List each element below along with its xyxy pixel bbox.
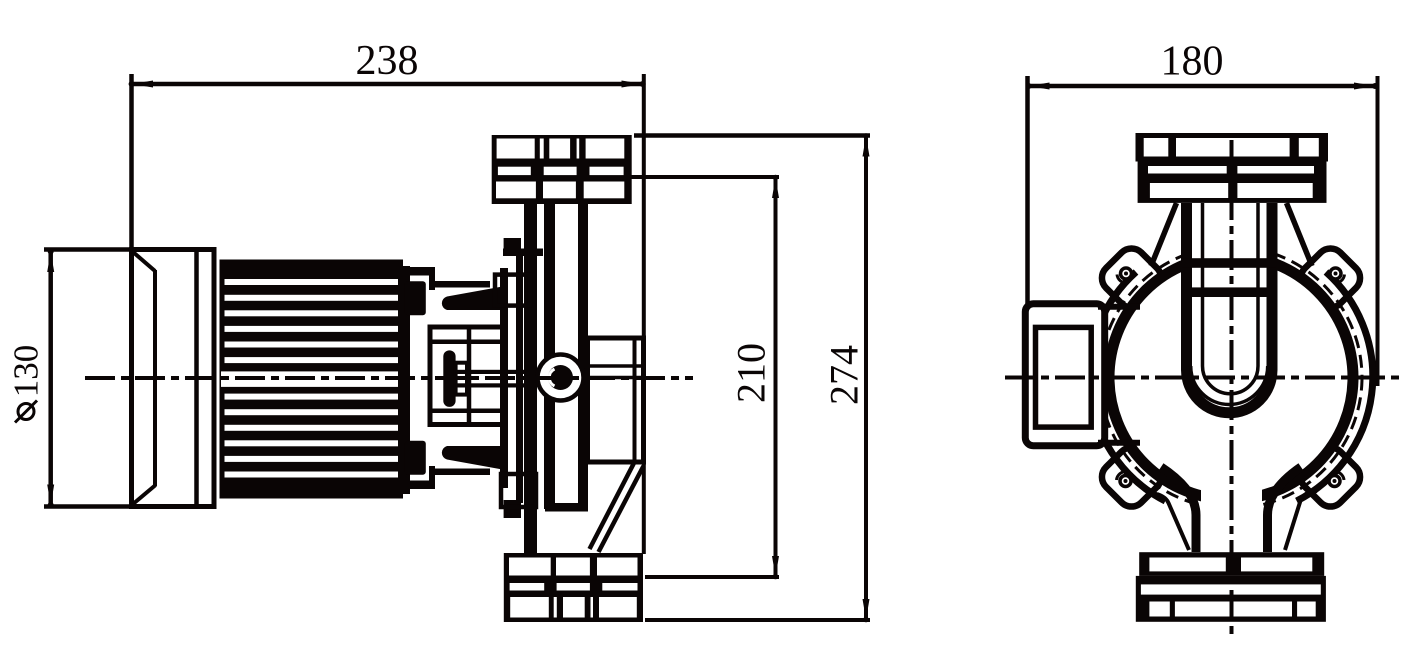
dimension 210 <box>630 175 779 580</box>
discharge bracket <box>588 338 644 552</box>
motor body with cooling fins <box>220 260 404 499</box>
top flange right view <box>1136 133 1329 203</box>
seal boss <box>538 355 642 401</box>
bell interior mask <box>1201 420 1262 548</box>
dimension 274 <box>634 133 870 622</box>
ear bolt holes <box>1117 268 1345 487</box>
bottom flange left view <box>504 553 643 622</box>
motor front bracket plate <box>398 266 410 494</box>
shaft block <box>456 363 530 395</box>
dimension 238 line <box>129 74 646 554</box>
svg-text:274: 274 <box>822 345 867 405</box>
svg-text:180: 180 <box>1161 39 1224 85</box>
dimension dia130 line <box>44 249 214 509</box>
lantern frame <box>430 327 505 425</box>
discharge pipe inner lines <box>1203 203 1259 394</box>
bottom bell of volute <box>1157 467 1317 552</box>
volute circle <box>1109 256 1353 500</box>
bottom flange right view <box>1136 552 1326 622</box>
centerline right view horizontal <box>1005 376 1404 380</box>
suction box left <box>1005 304 1140 446</box>
top lug and clamp bolt <box>404 267 508 315</box>
volute circle interior mask <box>1109 256 1353 500</box>
bolt ears <box>1096 243 1366 513</box>
pipe middle arc <box>1191 366 1268 405</box>
casing fittings bottom <box>504 500 521 518</box>
svg-text:210: 210 <box>729 343 774 403</box>
top flange left view <box>492 135 632 204</box>
svg-text:130: 130 <box>7 345 46 398</box>
flange corner diagonals <box>1151 203 1312 266</box>
casing backplate lines <box>504 204 588 554</box>
discharge pipe outer U <box>1187 203 1273 413</box>
casing fittings top <box>504 238 521 256</box>
bottom lug and clamp bolt <box>404 441 508 489</box>
ear band arcs <box>1089 272 1373 501</box>
svg-text:238: 238 <box>356 38 419 84</box>
motor rear cap <box>132 250 215 507</box>
centerline right view vertical <box>1230 140 1234 634</box>
parting dashed circle <box>1100 247 1362 509</box>
centerline left view <box>85 376 693 380</box>
dimension 180 <box>1026 76 1379 386</box>
coupling <box>443 350 455 407</box>
pipe interior mask <box>1192 203 1267 383</box>
pipe crossing bars <box>1182 258 1276 268</box>
